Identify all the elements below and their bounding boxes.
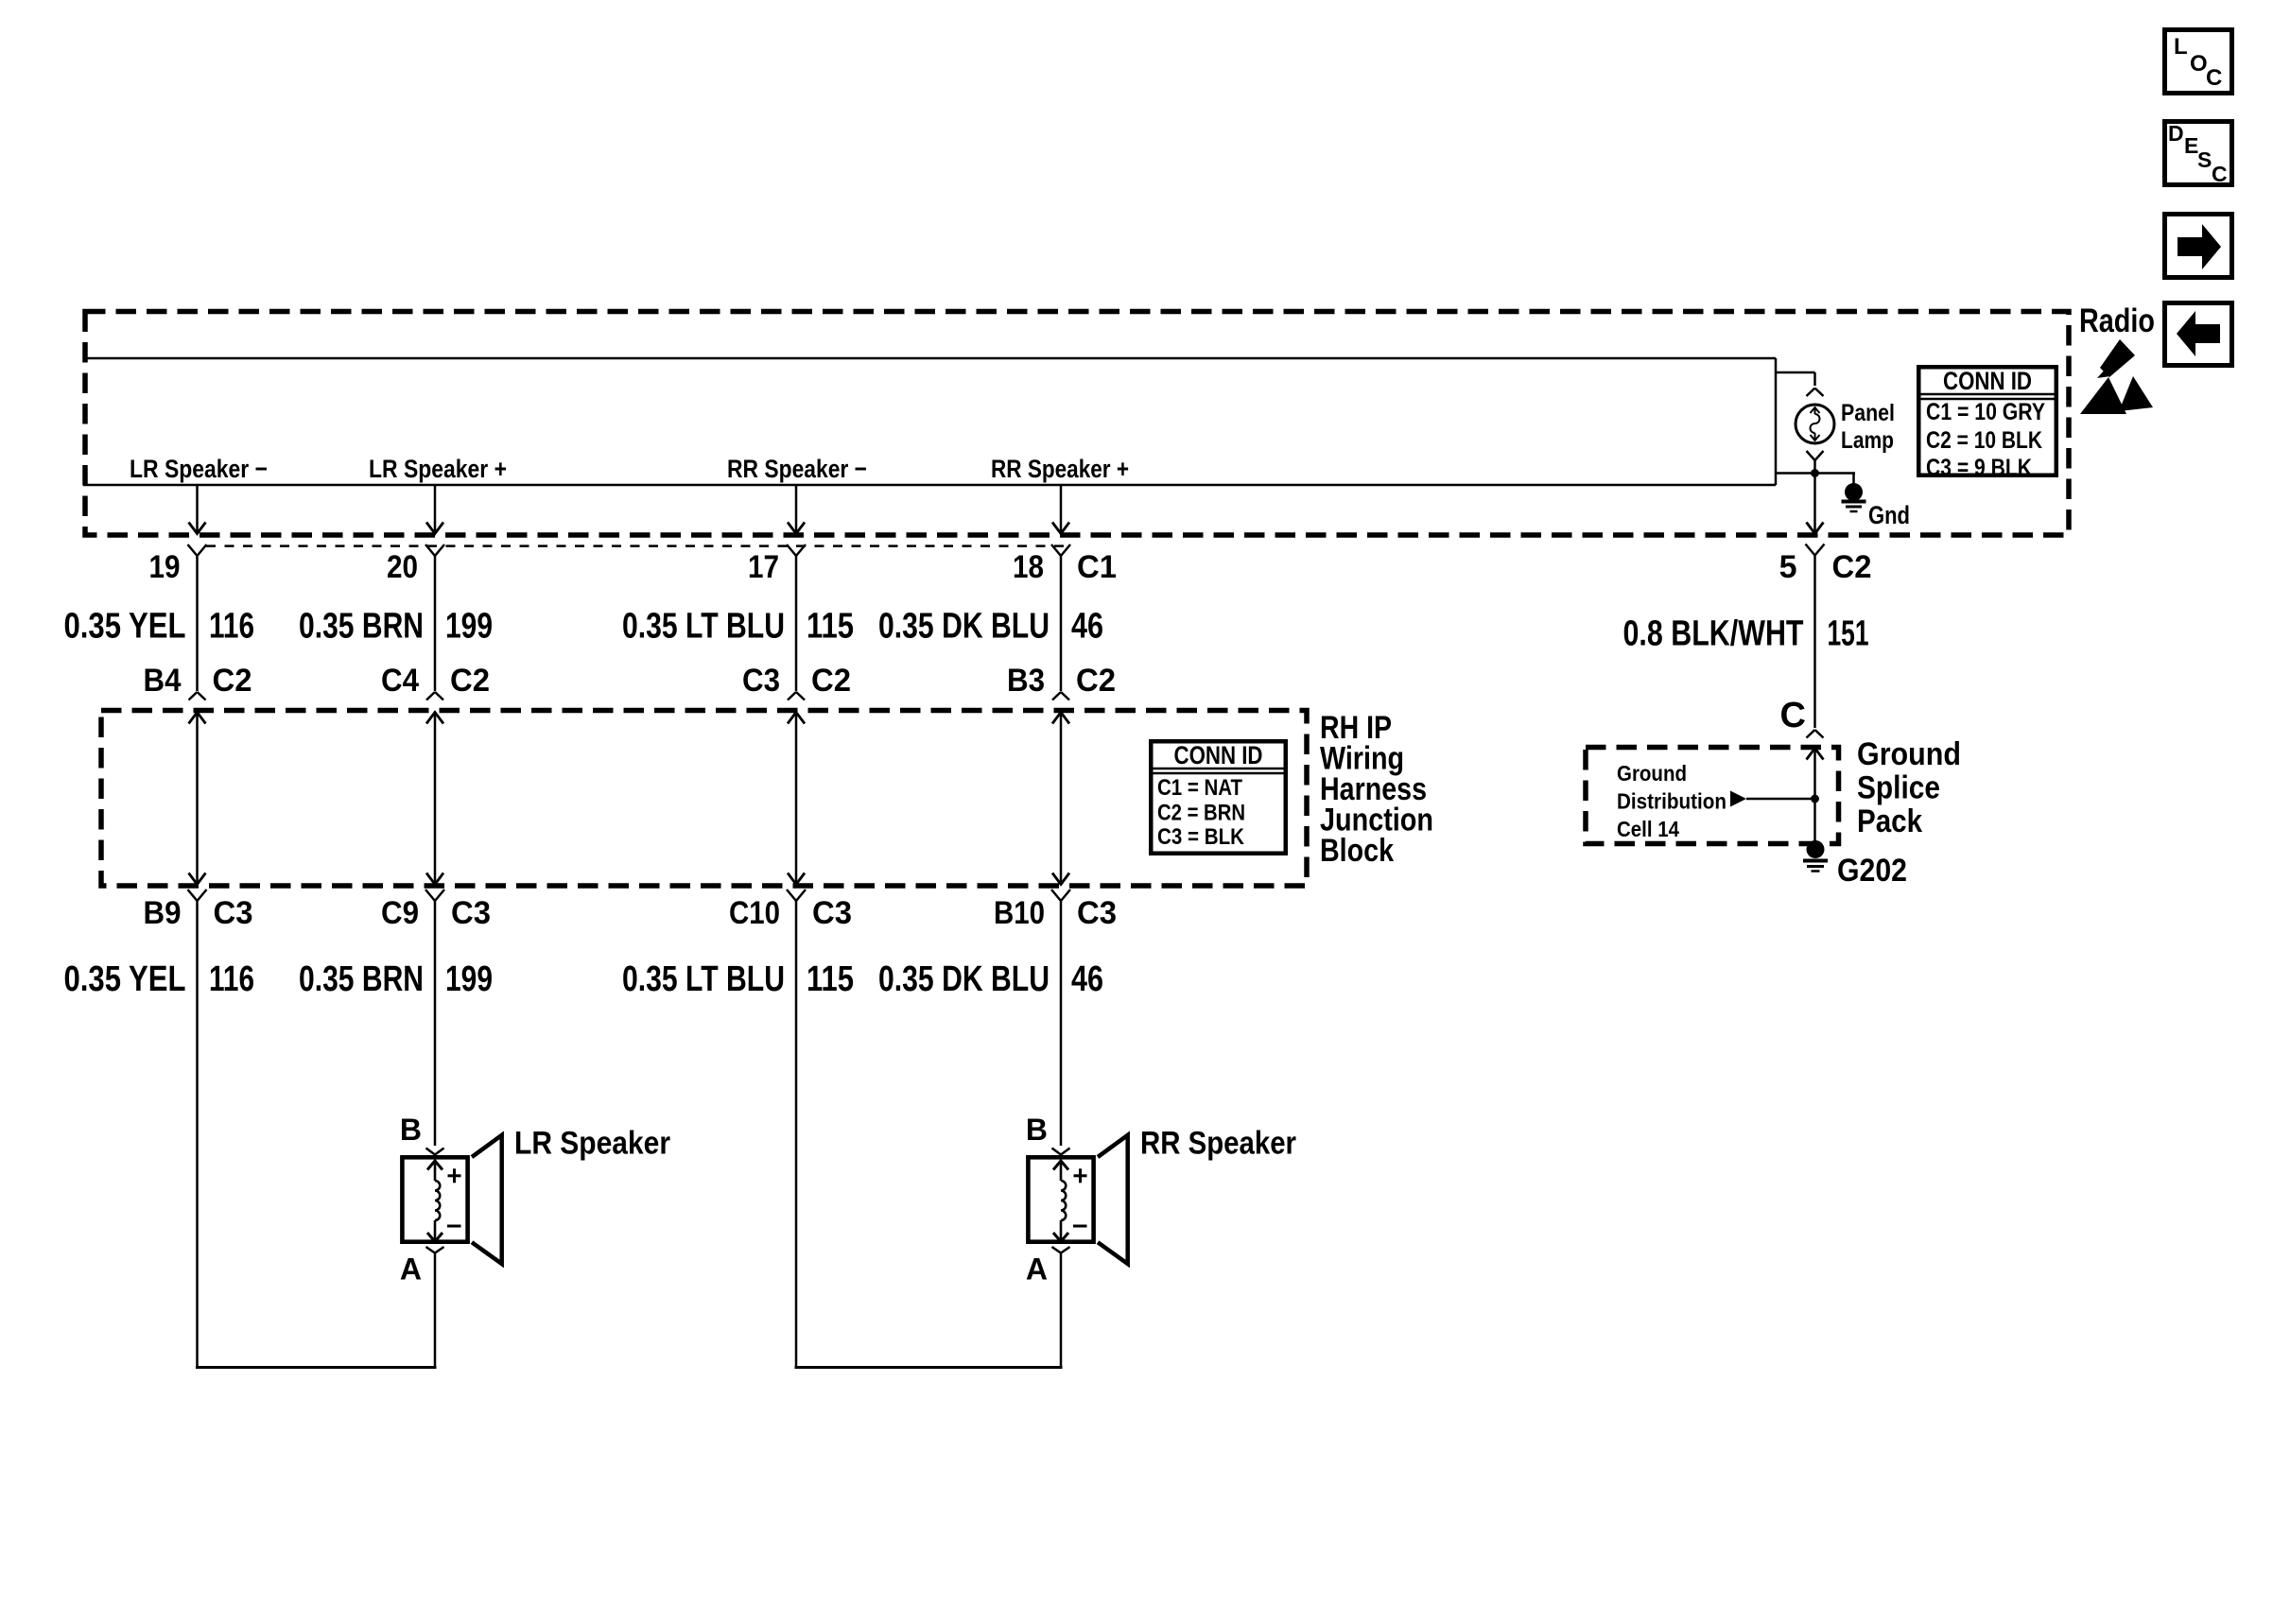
svg-text:C1: C1	[1077, 549, 1117, 585]
svg-text:46: 46	[1071, 959, 1103, 999]
svg-text:A: A	[400, 1253, 422, 1287]
svg-text:C4: C4	[381, 663, 419, 699]
svg-text:C1 = NAT: C1 = NAT	[1157, 775, 1242, 801]
svg-text:Gnd: Gnd	[1868, 501, 1910, 529]
svg-text:A: A	[1026, 1253, 1048, 1287]
svg-text:0.35 LT BLU: 0.35 LT BLU	[622, 607, 785, 647]
svg-text:Cell 14: Cell 14	[1617, 817, 1679, 841]
svg-text:RR Speaker +: RR Speaker +	[991, 455, 1129, 483]
svg-text:C2: C2	[450, 663, 490, 699]
svg-text:151: 151	[1828, 614, 1869, 654]
svg-text:D: D	[2168, 121, 2184, 146]
svg-text:0.35 DK BLU: 0.35 DK BLU	[878, 959, 1050, 999]
svg-text:C2: C2	[811, 663, 851, 699]
svg-text:Radio: Radio	[2079, 302, 2155, 339]
svg-text:199: 199	[445, 959, 493, 999]
svg-text:199: 199	[445, 607, 493, 647]
svg-text:B4: B4	[144, 663, 182, 699]
svg-text:Pack: Pack	[1857, 803, 1922, 839]
svg-text:0.35 LT BLU: 0.35 LT BLU	[622, 959, 785, 999]
svg-text:B9: B9	[144, 895, 182, 931]
svg-text:Ground: Ground	[1857, 736, 1961, 772]
svg-text:Lamp: Lamp	[1841, 427, 1894, 454]
svg-text:C9: C9	[381, 895, 419, 931]
svg-text:46: 46	[1071, 607, 1103, 647]
svg-text:LR Speaker: LR Speaker	[514, 1126, 670, 1162]
svg-text:CONN ID: CONN ID	[1174, 741, 1263, 769]
svg-text:LR Speaker −: LR Speaker −	[130, 455, 268, 483]
svg-text:5: 5	[1779, 549, 1797, 585]
svg-text:G202: G202	[1837, 853, 1907, 889]
svg-text:B: B	[1026, 1113, 1048, 1147]
svg-text:C: C	[2212, 162, 2228, 186]
svg-text:S: S	[2197, 147, 2212, 172]
svg-text:Splice: Splice	[1857, 770, 1940, 806]
svg-text:0.35 YEL: 0.35 YEL	[64, 607, 186, 647]
svg-text:C10: C10	[729, 895, 780, 931]
svg-text:116: 116	[209, 607, 254, 647]
svg-text:C2: C2	[1076, 663, 1116, 699]
svg-text:0.35 BRN: 0.35 BRN	[299, 959, 424, 999]
svg-text:116: 116	[209, 959, 254, 999]
svg-text:B: B	[400, 1113, 422, 1147]
svg-text:C2: C2	[1832, 549, 1872, 585]
svg-text:0.8 BLK/WHT: 0.8 BLK/WHT	[1623, 614, 1804, 654]
svg-text:Block: Block	[1320, 833, 1394, 869]
svg-text:Ground: Ground	[1617, 761, 1687, 786]
svg-text:0.35 BRN: 0.35 BRN	[299, 607, 424, 647]
svg-text:RR Speaker −: RR Speaker −	[727, 455, 867, 483]
svg-text:Panel: Panel	[1841, 400, 1895, 426]
svg-text:C3 = BLK: C3 = BLK	[1157, 824, 1245, 850]
svg-text:C2: C2	[213, 663, 252, 699]
svg-text:C1 = 10 GRY: C1 = 10 GRY	[1926, 399, 2045, 425]
svg-text:0.35 YEL: 0.35 YEL	[64, 959, 186, 999]
svg-text:C2 = BRN: C2 = BRN	[1157, 801, 1245, 826]
svg-text:C2 = 10 BLK: C2 = 10 BLK	[1926, 427, 2042, 454]
svg-text:C3: C3	[451, 895, 491, 931]
svg-text:18: 18	[1013, 549, 1044, 585]
svg-text:C3: C3	[214, 895, 253, 931]
svg-text:C: C	[1780, 696, 1806, 735]
svg-text:115: 115	[807, 959, 854, 999]
svg-text:B10: B10	[994, 895, 1045, 931]
svg-text:CONN ID: CONN ID	[1943, 367, 2032, 395]
svg-text:L: L	[2174, 34, 2188, 60]
svg-text:19: 19	[149, 549, 181, 585]
svg-text:O: O	[2190, 51, 2208, 77]
svg-text:B3: B3	[1007, 663, 1045, 699]
svg-text:C3: C3	[742, 663, 780, 699]
svg-text:RR Speaker: RR Speaker	[1140, 1126, 1296, 1162]
svg-text:17: 17	[748, 549, 779, 585]
svg-text:LR Speaker +: LR Speaker +	[369, 455, 507, 483]
svg-text:C: C	[2206, 65, 2222, 91]
svg-text:0.35 DK BLU: 0.35 DK BLU	[878, 607, 1050, 647]
svg-text:Distribution: Distribution	[1617, 789, 1726, 814]
svg-text:C3: C3	[812, 895, 852, 931]
svg-text:115: 115	[807, 607, 854, 647]
svg-text:20: 20	[387, 549, 418, 585]
svg-text:C3: C3	[1077, 895, 1117, 931]
svg-text:C3 = 9 BLK: C3 = 9 BLK	[1926, 455, 2032, 481]
